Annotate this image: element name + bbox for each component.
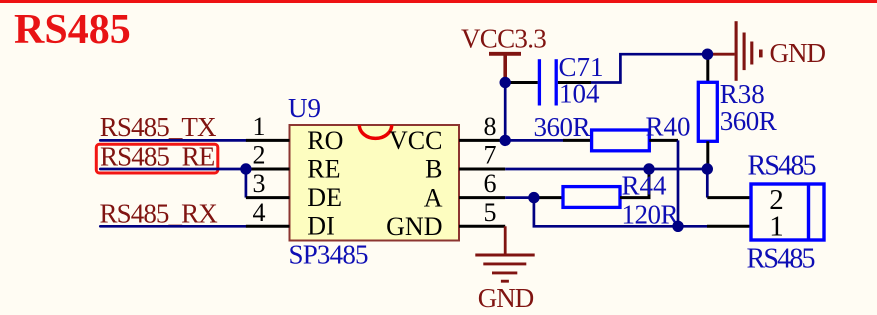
- svg-text:4: 4: [253, 198, 266, 227]
- svg-text:6: 6: [484, 169, 497, 198]
- svg-text:A: A: [424, 183, 443, 212]
- resistor R44: [534, 169, 649, 207]
- svg-text:RS485_TX: RS485_TX: [100, 112, 217, 142]
- svg-text:C71: C71: [559, 52, 604, 82]
- svg-text:GND: GND: [478, 283, 534, 313]
- svg-text:SP3485: SP3485: [289, 240, 369, 270]
- wire B net to connector pin 2: [706, 169, 709, 198]
- svg-text:GND: GND: [770, 38, 826, 68]
- svg-text:VCC3.3: VCC3.3: [461, 24, 546, 54]
- wire junction to GND symbol: [708, 53, 735, 56]
- svg-text:7: 7: [484, 141, 497, 170]
- pin 6: [459, 196, 505, 199]
- svg-text:DI: DI: [307, 212, 334, 241]
- wire RS485_RX to pin 4: [100, 225, 246, 228]
- svg-text:RS485: RS485: [748, 150, 816, 181]
- wire junction down to pin 3: [245, 169, 248, 198]
- resistor R38: [698, 54, 717, 169]
- wire RS485_RE to pin 2: [100, 168, 246, 171]
- pin 7: [459, 168, 505, 171]
- svg-text:360R: 360R: [720, 106, 777, 136]
- svg-text:B: B: [425, 155, 442, 184]
- svg-text:R40: R40: [646, 112, 691, 142]
- wire pin 6 (A net): [505, 196, 534, 199]
- connector RS485: [751, 184, 824, 240]
- ground GND bottom: [475, 255, 534, 313]
- pin 5: [459, 225, 505, 228]
- ground GND top right: [736, 21, 825, 81]
- svg-text:R38: R38: [720, 79, 765, 109]
- junction R38 bottom: [702, 163, 713, 174]
- svg-text:RO: RO: [307, 126, 343, 155]
- pin 4: [246, 225, 290, 228]
- junction pin8/R40: [500, 135, 511, 146]
- wire pin 7 (B net): [505, 168, 707, 171]
- wire A net down and right to connector pin 1: [534, 198, 707, 227]
- svg-text:GND: GND: [386, 212, 442, 241]
- junction R44 top: [643, 163, 654, 174]
- junction GND rail: [702, 49, 713, 60]
- svg-text:5: 5: [484, 198, 497, 227]
- junction RE/DE tie: [240, 163, 251, 174]
- pin 8: [459, 139, 505, 142]
- junction A net / R40: [672, 221, 683, 232]
- svg-text:RS485_RX: RS485_RX: [100, 199, 219, 229]
- pin 3: [246, 196, 290, 199]
- svg-text:RE: RE: [307, 154, 340, 183]
- svg-text:1: 1: [253, 112, 266, 141]
- wire R40 down to A line: [677, 140, 680, 226]
- wire C71 to GND rail: [591, 54, 708, 82]
- junction VCC/C71: [500, 77, 511, 88]
- junction R44 left: [528, 192, 539, 203]
- svg-text:360R: 360R: [534, 112, 591, 142]
- capacitor C71: [505, 59, 591, 105]
- svg-text:DE: DE: [307, 183, 342, 212]
- wire pin 8 to R40: [505, 139, 563, 142]
- svg-text:U9: U9: [288, 93, 321, 123]
- svg-text:R44: R44: [622, 171, 668, 201]
- svg-text:VCC: VCC: [389, 126, 442, 155]
- svg-text:RS485: RS485: [14, 7, 131, 53]
- svg-text:2: 2: [253, 141, 266, 170]
- wire VCC down to pin 8: [504, 83, 507, 141]
- power symbol VCC3.3: [461, 24, 546, 80]
- wire pin 5 to ground: [504, 226, 507, 255]
- svg-text:8: 8: [484, 112, 497, 141]
- pin 2: [246, 168, 290, 171]
- svg-text:1: 1: [769, 211, 784, 243]
- resistor R40: [563, 130, 678, 151]
- IC U9 SP3485 body: [290, 125, 460, 241]
- highlight box around RS485_RE: [96, 144, 218, 173]
- svg-text:3: 3: [253, 169, 266, 198]
- wire RS485_TX to pin 1: [100, 139, 246, 142]
- pin 1: [246, 139, 290, 142]
- wire connector pin 1 stub: [707, 225, 751, 228]
- svg-text:RS485: RS485: [747, 243, 815, 274]
